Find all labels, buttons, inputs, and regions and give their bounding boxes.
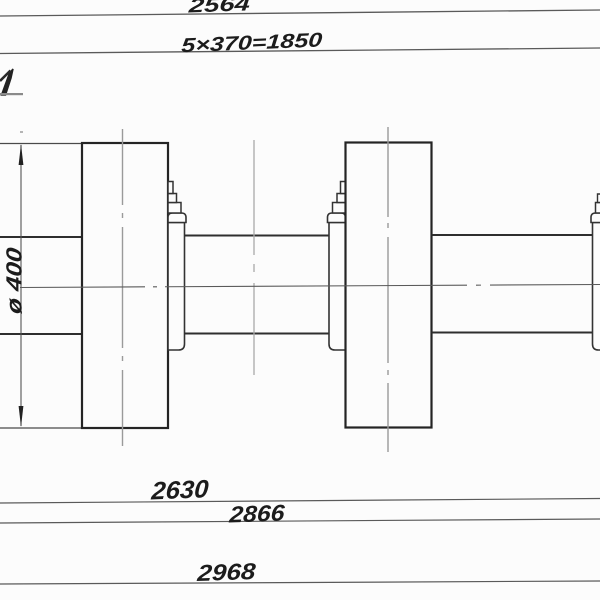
left shaft segment bottom line bbox=[0, 333, 82, 335]
collar 2 step 2 bbox=[337, 194, 346, 203]
collar 2 cap bbox=[328, 213, 346, 223]
wheel block 2 bbox=[346, 143, 432, 428]
right collar cap bbox=[591, 213, 600, 223]
extension line top (wheel dia) bbox=[0, 143, 82, 145]
dimension line 2630 bbox=[0, 499, 600, 504]
collar 1 cap bbox=[168, 213, 186, 223]
wheel 1 centerline bbox=[122, 129, 124, 447]
right shaft top line bbox=[432, 234, 593, 236]
collar 2 step 1 bbox=[341, 182, 346, 194]
left shaft segment top line bbox=[0, 236, 82, 238]
right collar small step bbox=[598, 194, 600, 203]
dimension line ø400 vertical bbox=[20, 145, 22, 426]
speck above arrow bbox=[20, 131, 23, 133]
middle shaft bottom line bbox=[185, 333, 329, 335]
wheel block 1 bbox=[82, 143, 168, 428]
dimension line 2564 (top) bbox=[0, 10, 600, 16]
collar 2 step 3 bbox=[333, 203, 346, 214]
mid-span centerline bbox=[253, 140, 255, 375]
dimension line 2866 bbox=[0, 519, 600, 523]
collar 2 body (left of wheel 2) bbox=[329, 223, 346, 351]
shaft axis centerline bbox=[20, 285, 600, 288]
svg-text:2866: 2866 bbox=[228, 500, 286, 528]
svg-text:2968: 2968 bbox=[196, 558, 257, 586]
svg-text:ø 400: ø 400 bbox=[2, 246, 27, 315]
dimension line 2968 bbox=[0, 581, 600, 584]
extension line bottom (wheel dia) bbox=[0, 427, 82, 429]
wheel 2 centerline bbox=[387, 127, 389, 452]
right collar body bbox=[593, 223, 600, 351]
arrow up bbox=[19, 144, 24, 165]
collar 1 step 1 bbox=[168, 182, 173, 194]
collar 1 step 2 bbox=[168, 194, 177, 203]
right shaft bottom line bbox=[432, 332, 593, 334]
dimension line 5x370=1850 bbox=[0, 48, 600, 54]
svg-text:2630: 2630 bbox=[150, 475, 210, 505]
svg-text:2564: 2564 bbox=[187, 0, 251, 18]
collar 1 body (right of wheel 1) bbox=[168, 223, 185, 351]
collar 1 step 3 bbox=[168, 203, 181, 214]
middle shaft top line bbox=[185, 235, 329, 237]
right collar step bbox=[596, 203, 600, 214]
partial mark "1" top-left bbox=[2, 69, 14, 95]
arrow down bbox=[19, 406, 24, 427]
